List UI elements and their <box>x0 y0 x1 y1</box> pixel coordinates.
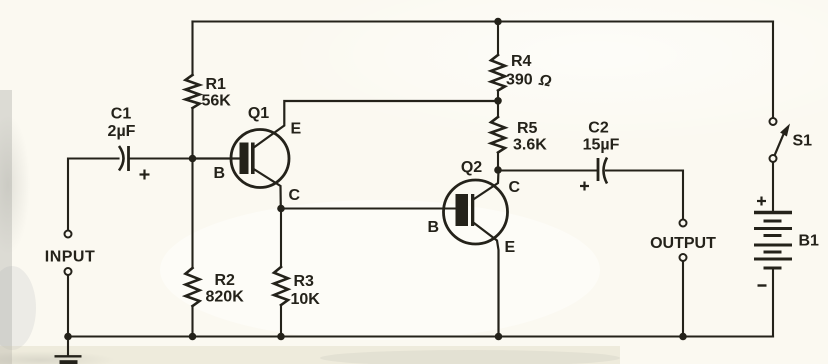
svg-text:E: E <box>505 239 516 256</box>
wire Q1 base lead <box>193 157 240 159</box>
C2 plus sign <box>580 182 589 191</box>
svg-text:C1: C1 <box>111 106 132 123</box>
node rail ground <box>64 333 72 341</box>
svg-text:B1: B1 <box>799 233 820 250</box>
svg-text:3.6K: 3.6K <box>513 137 547 154</box>
battery B1 <box>754 213 792 269</box>
node rail output <box>679 333 687 341</box>
node rail R3 <box>277 333 285 341</box>
svg-text:OUTPUT: OUTPUT <box>650 235 716 252</box>
svg-text:390: 390 <box>506 72 533 89</box>
wire collector node to R3 <box>280 209 282 268</box>
wire right drop to switch <box>772 22 774 118</box>
switch S1 <box>770 118 791 162</box>
wire top rail to R4 <box>497 22 499 56</box>
ground <box>55 356 82 364</box>
node base junction <box>189 155 197 163</box>
input terminal top <box>65 231 72 238</box>
transistor Q2 <box>444 180 508 244</box>
capacitor C1 <box>119 146 129 171</box>
wire R3 to bottom rail <box>280 305 282 337</box>
wire C node to C2 <box>498 169 597 171</box>
wire C2 to output corner <box>606 171 683 220</box>
resistor R4 <box>491 55 505 91</box>
svg-text:B: B <box>428 219 440 236</box>
svg-text:R2: R2 <box>215 272 236 289</box>
svg-text:2µF: 2µF <box>108 123 136 140</box>
wire Q1 emitter to R4/R5 junction <box>255 101 499 147</box>
svg-text:C2: C2 <box>588 120 609 137</box>
resistor R3 <box>274 267 288 305</box>
wire R1 to base junction to R2 <box>191 108 193 268</box>
svg-text:C: C <box>289 187 301 204</box>
wire battery bottom to rail <box>772 269 774 337</box>
wire C1 to base junction <box>130 157 193 159</box>
wire R2 to bottom rail <box>191 306 193 337</box>
wire collector node to Q2 base <box>281 207 456 209</box>
svg-text:INPUT: INPUT <box>45 249 96 266</box>
svg-text:B: B <box>214 165 226 182</box>
wire output bottom terminal to rail <box>682 261 684 337</box>
output terminal bottom <box>680 254 687 261</box>
wire bottom rail <box>68 335 773 337</box>
input terminal bottom <box>65 268 72 275</box>
wire Q2 emitter lead down to rail <box>474 223 499 337</box>
svg-text:C: C <box>509 179 521 196</box>
svg-text:R3: R3 <box>294 273 315 290</box>
svg-text:Q2: Q2 <box>461 159 482 176</box>
node rail Q2 emitter <box>495 333 503 341</box>
resistor R1 <box>186 75 200 108</box>
svg-text:820K: 820K <box>206 289 245 306</box>
transistor Q1 <box>231 130 289 188</box>
node Q1 collector <box>277 205 285 213</box>
resistor R5 <box>491 117 505 153</box>
node R4/R5 junction <box>494 97 502 105</box>
wire R5 to C node <box>497 153 499 171</box>
wire input bottom terminal to rail <box>67 275 69 337</box>
wire left branch vertical (V+ to R1) <box>191 22 193 76</box>
svg-text:R1: R1 <box>206 76 227 93</box>
ground stem <box>67 337 69 356</box>
svg-text:S1: S1 <box>793 133 813 150</box>
svg-text:10K: 10K <box>291 291 321 308</box>
svg-text:E: E <box>291 121 302 138</box>
wire input corner to C1 <box>68 159 119 231</box>
battery plus sign <box>757 197 766 206</box>
svg-text:Q1: Q1 <box>248 105 269 122</box>
output terminal top <box>680 220 687 227</box>
node R5 / Q2 collector <box>494 166 502 174</box>
svg-text:R4: R4 <box>511 53 532 70</box>
node top rail / R4 <box>494 18 502 26</box>
node rail R2 <box>189 333 197 341</box>
svg-text:R5: R5 <box>517 120 538 137</box>
battery minus sign <box>758 284 767 286</box>
wire top rail <box>193 20 774 22</box>
wire Q2 collector lead <box>474 170 499 199</box>
svg-text:56K: 56K <box>202 93 232 110</box>
C1 plus sign <box>140 170 150 180</box>
wire R4 to mid junction <box>497 91 499 118</box>
wire Q1 collector to node <box>255 170 281 209</box>
wire switch to battery <box>772 162 774 211</box>
capacitor C2 <box>598 158 607 184</box>
resistor R2 <box>186 268 200 306</box>
svg-text:15µF: 15µF <box>583 137 620 154</box>
